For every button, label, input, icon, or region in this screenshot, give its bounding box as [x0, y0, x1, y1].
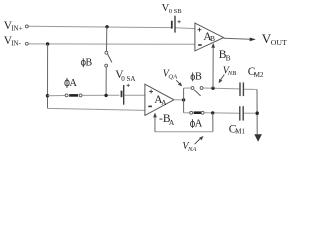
wire C_M1 to right rail: [244, 112, 256, 114]
wire phiA junction to switch: [48, 95, 66, 97]
svg-text:A: A: [195, 119, 203, 130]
switch phiB terminal bottom: [105, 64, 108, 67]
label -B_A: [159, 113, 175, 127]
svg-text:NB: NB: [227, 70, 236, 77]
svg-text:M1: M1: [235, 127, 245, 135]
switch phiB blade (open): [108, 54, 112, 62]
wire battery VOSA to A_A + input: [124, 94, 145, 96]
wire C_M2 to right rail: [244, 88, 257, 90]
label C_M1: [229, 123, 246, 135]
switch phiB2 terminal left: [191, 87, 194, 90]
node junction dot right rail: [255, 111, 259, 115]
arrowhead output: [250, 38, 256, 42]
arrowhead -B_A input: [153, 113, 157, 118]
node junction dot on Vin+ line: [105, 25, 108, 28]
wire switch phiA to battery VOSA: [82, 94, 119, 96]
capacitor C_M1 plate right: [242, 106, 244, 120]
op-amp A_B triangle: [195, 23, 224, 51]
wire B_B input arrow vertical: [212, 47, 214, 89]
wire feedback up to -B_A input: [154, 117, 156, 132]
label phiB: [81, 57, 92, 68]
label C_M2: [248, 66, 264, 79]
battery VOSA long plate: [123, 85, 125, 105]
node junction dot A_A output: [182, 98, 185, 101]
arrow down at right rail end: [254, 134, 262, 142]
switch phiA terminal left: [65, 94, 68, 97]
label VQA: [163, 69, 177, 81]
wire junction to switch phiB top: [106, 27, 108, 52]
terminal Vin-: [25, 42, 28, 45]
node junction dot on Vin- line: [46, 42, 49, 45]
wire switch phiA2 to C_M1: [204, 112, 239, 114]
wire bottom branch to switch phiA2: [184, 112, 190, 114]
svg-text:IN-: IN-: [11, 39, 21, 47]
label phiB2: [191, 72, 202, 83]
label VNA: [182, 141, 196, 153]
battery VOSB plus sign: [178, 20, 181, 23]
label phiA2: [190, 119, 202, 130]
svg-text:B: B: [195, 72, 202, 83]
svg-text:A: A: [169, 118, 175, 127]
wire Vin+ to battery VOSB: [29, 26, 171, 27]
svg-text:0 SB: 0 SB: [169, 8, 182, 15]
arrow VQA pointing to node: [176, 80, 182, 86]
label phiA: [65, 78, 78, 89]
arrow VNB pointing to node: [219, 75, 225, 84]
node junction dot VOSA wire: [104, 94, 107, 97]
svg-text:IN+: IN+: [11, 24, 22, 32]
wire feedback horizontal: [155, 131, 213, 133]
svg-text:B: B: [226, 53, 231, 62]
svg-text:M2: M2: [254, 71, 264, 79]
switch phiA2 terminal right: [201, 111, 204, 114]
capacitor C_M2 plate right: [242, 82, 244, 96]
op-amp A_B plus input mark: [198, 28, 202, 32]
battery VOSB long plate: [174, 16, 176, 33]
battery VOSA plus sign: [127, 84, 130, 87]
svg-text:NA: NA: [187, 146, 196, 153]
wire right rail vertical: [256, 89, 258, 134]
switch phiA2 terminal left: [190, 111, 193, 114]
op-amp A_A triangle: [145, 84, 174, 115]
svg-text:QA: QA: [168, 73, 177, 80]
switch phiA2 blade (closed): [194, 111, 201, 114]
switch phiB2 blade (open): [194, 90, 201, 96]
op-amp A_A name: [154, 94, 167, 107]
wire A_A output: [174, 99, 184, 101]
wire feedback down: [212, 113, 214, 132]
svg-text:0 SA: 0 SA: [121, 75, 135, 83]
capacitor C_M1 plate left: [239, 106, 241, 120]
op-amp A_B name: [203, 31, 215, 43]
label B_B: [219, 49, 231, 63]
wire A_B output: [224, 38, 251, 39]
op-amp A_B minus input mark: [198, 44, 202, 46]
wire battery VOSB to A_B + input: [176, 27, 195, 30]
label VOSA: [115, 69, 135, 83]
wire Vin- junction down: [47, 44, 49, 108]
label VOUT: [262, 31, 287, 47]
wire Vin- to A_B - input: [29, 43, 195, 45]
label VOSB: [162, 3, 183, 15]
svg-text:OUT: OUT: [271, 38, 287, 47]
battery VOSA short plate: [121, 91, 123, 98]
op-amp A_A minus input mark: [148, 105, 152, 107]
switch phiB terminal top: [105, 51, 108, 54]
node Vin- terminal label: [4, 35, 22, 48]
switch phiA terminal right: [79, 94, 82, 97]
wire corner to A_A - input: [48, 108, 145, 110]
wire switch phiB2 to C_M2: [203, 87, 239, 90]
svg-text:B: B: [210, 34, 215, 43]
arrowhead B_B input: [211, 43, 215, 48]
node Vin+ terminal label: [4, 20, 23, 32]
label VNB: [223, 66, 236, 78]
wire switch phiB bottom to VOSA node: [105, 67, 107, 95]
node junction dot feedback tap: [211, 111, 214, 114]
arrow VNA pointing to feedback wire: [195, 136, 204, 144]
node junction dot B_B tap: [211, 87, 214, 90]
op-amp A_A plus input mark: [149, 90, 153, 94]
svg-text:A: A: [161, 98, 167, 107]
terminal Vin+: [25, 25, 28, 28]
switch phiA blade (closed): [69, 94, 78, 97]
switch phiB2 terminal right: [200, 87, 203, 90]
svg-text:B: B: [86, 57, 93, 68]
node junction dot phiA wire: [46, 94, 49, 97]
capacitor C_M2 plate left: [239, 82, 241, 96]
svg-text:A: A: [69, 78, 77, 89]
wire top branch to switch phiB2: [184, 87, 191, 89]
battery VOSB short plate: [171, 21, 173, 29]
wire output branch vertical: [183, 88, 185, 113]
